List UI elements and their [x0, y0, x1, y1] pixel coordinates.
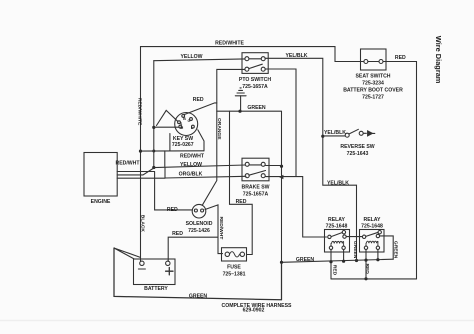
connector wedge at battery	[114, 248, 140, 259]
svg-text:S: S	[180, 122, 183, 126]
svg-text:RED/WHITE: RED/WHITE	[215, 41, 244, 47]
svg-text:FUSE: FUSE	[227, 265, 241, 271]
svg-text:725-1643: 725-1643	[347, 151, 369, 157]
svg-text:725-3234: 725-3234	[362, 81, 384, 87]
wire GREEN upper run to ground	[217, 110, 281, 112]
engine pigtail 1	[117, 168, 154, 175]
svg-text:GREEN: GREEN	[247, 105, 266, 111]
svg-text:BATTERY BOOT COVER: BATTERY BOOT COVER	[343, 88, 403, 94]
battery B1	[134, 259, 176, 285]
wire RED/WHT to key switch bottom	[140, 150, 204, 152]
svg-text:RED: RED	[167, 207, 178, 213]
svg-text:YELLOW: YELLOW	[181, 54, 203, 60]
svg-text:725-1657A: 725-1657A	[243, 191, 269, 197]
svg-text:ORANGE: ORANGE	[216, 118, 222, 140]
wire relay2 coil drops	[366, 250, 378, 279]
wire lower RED return line	[331, 278, 417, 280]
ENGINE box	[84, 153, 117, 197]
brake switch 725-1657A	[242, 158, 269, 181]
wire GREEN drop between relays	[356, 237, 358, 261]
wire RED/WHT solenoid to fuse	[205, 205, 223, 254]
svg-text:RED: RED	[193, 97, 204, 103]
wire brake right-bottom to relay 1	[266, 175, 327, 237]
wire stub brake switch right-top	[266, 165, 282, 167]
svg-text:RELAY: RELAY	[328, 217, 346, 223]
PTO switch 725-1657A	[242, 53, 268, 74]
solenoid 725-1426	[192, 204, 206, 218]
node junction on yellow drop	[152, 150, 155, 153]
svg-text:629-0902: 629-0902	[243, 308, 265, 314]
svg-text:725-1648: 725-1648	[326, 224, 348, 230]
wire YELLOW vertical drop	[153, 61, 155, 168]
node junction RED/WHT at key switch feed	[139, 150, 142, 153]
svg-text:725–1381: 725–1381	[223, 272, 246, 278]
wire GREEN bottom return to battery area	[114, 248, 282, 300]
key switch 725-0267	[165, 113, 204, 167]
wire RED seat switch to right side drop	[383, 62, 417, 279]
svg-text:RED: RED	[395, 55, 406, 61]
node junction ground stem	[238, 110, 241, 113]
wire RED/WHITE top run	[141, 47, 365, 62]
wire relay1 coil drops	[331, 250, 344, 279]
svg-text:BLACK: BLACK	[139, 215, 145, 233]
svg-text:ENGINE: ENGINE	[91, 199, 111, 205]
node junction green bus left	[280, 261, 283, 264]
svg-text:YEL/BLK: YEL/BLK	[327, 180, 349, 186]
wire RED from key switch B	[184, 103, 217, 115]
svg-text:725-1426: 725-1426	[188, 228, 210, 234]
node junction reverse switch tap	[321, 135, 324, 138]
svg-text:RED/WHT: RED/WHT	[116, 160, 141, 166]
svg-text:B: B	[183, 117, 186, 121]
svg-text:GREEN: GREEN	[352, 241, 358, 259]
svg-text:725-1648: 725-1648	[361, 224, 383, 230]
wire YELLOW bus to brake switch	[154, 165, 246, 168]
svg-text:YEL/BLK: YEL/BLK	[286, 53, 308, 59]
reverse switch 725-1643	[323, 129, 375, 137]
wire relay2 right to green	[380, 236, 393, 259]
node junction yellow bus	[152, 166, 155, 169]
svg-text:SEAT SWITCH: SEAT SWITCH	[355, 74, 390, 80]
node junction key M feed	[152, 126, 155, 129]
wire RED battery positive to solenoid/fuse drop	[168, 237, 218, 261]
wire ORANGE lower to fuse	[230, 111, 253, 254]
svg-text:REVERSE SW: REVERSE SW	[340, 144, 374, 150]
svg-text:RED: RED	[172, 231, 183, 237]
svg-text:RED/WHT: RED/WHT	[218, 217, 224, 240]
relay 1 725-1648	[325, 230, 350, 253]
node junction lower line	[364, 277, 367, 280]
wire GREEN bus under relays	[282, 259, 394, 262]
svg-text:Wire Diagram: Wire Diagram	[434, 36, 443, 84]
node junctions on green bus	[329, 258, 379, 263]
svg-text:RED/WHT: RED/WHT	[180, 153, 205, 159]
svg-text:BATTERY: BATTERY	[144, 286, 168, 292]
svg-text:RED/WHITE: RED/WHITE	[137, 98, 143, 126]
svg-text:YEL/BLK: YEL/BLK	[324, 130, 346, 136]
svg-text:ORG/BLK: ORG/BLK	[179, 172, 203, 178]
wire GREEN vertical main drop	[281, 111, 283, 262]
svg-text:725-1657A: 725-1657A	[242, 84, 268, 90]
svg-text:RED: RED	[364, 264, 370, 275]
svg-text:BRAKE SW: BRAKE SW	[242, 184, 270, 190]
svg-text:G: G	[188, 119, 191, 123]
svg-text:PTO SWITCH: PTO SWITCH	[239, 77, 271, 83]
svg-text:RED: RED	[331, 265, 337, 276]
wire ORG/BLK bus to brake switch	[165, 168, 246, 179]
svg-text:RELAY: RELAY	[364, 217, 382, 223]
wire RED/WHITE vertical drop / BLACK to battery	[140, 47, 142, 262]
fuse 725-1381	[222, 248, 247, 261]
svg-text:725-0267: 725-0267	[172, 142, 194, 148]
svg-text:725-1727: 725-1727	[362, 95, 384, 101]
svg-text:YELLOW: YELLOW	[180, 162, 202, 168]
svg-text:GREEN: GREEN	[296, 257, 315, 263]
svg-text:GREEN: GREEN	[392, 241, 398, 259]
svg-text:KEY SW: KEY SW	[173, 136, 193, 142]
wire ORANGE upper from PTO	[202, 69, 245, 205]
wire RED diagonal engine to solenoid	[117, 172, 192, 210]
svg-text:RED: RED	[236, 199, 247, 205]
wire from PTO bottom-right down right side of brake	[265, 69, 296, 177]
ground symbol	[235, 88, 246, 111]
wire to key switch M terminal	[154, 126, 179, 128]
svg-text:SOLENOID: SOLENOID	[186, 221, 213, 227]
svg-text:M: M	[180, 126, 183, 130]
seat switch 725-3234	[361, 49, 387, 70]
svg-text:GREEN: GREEN	[189, 293, 208, 299]
wire YELLOW top run	[154, 59, 245, 61]
wire YEL/BLK from PTO to reverse switch and relays	[265, 58, 357, 237]
wire relay1 to relay2 common	[347, 236, 363, 238]
connector wedge at key switch	[157, 110, 178, 125]
relay 2 725-1648	[360, 230, 385, 253]
engine pigtail 2	[117, 177, 165, 179]
node junction brake top stub	[280, 165, 283, 168]
